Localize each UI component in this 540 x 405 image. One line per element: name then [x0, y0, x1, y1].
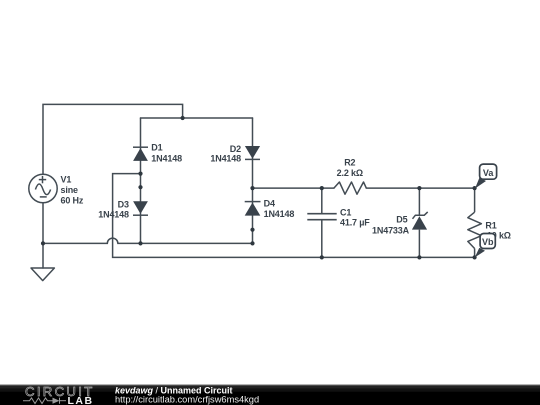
label C1 [340, 208, 370, 228]
wire D1/D3 column [140, 118, 142, 243]
svg-text:V1: V1 [61, 175, 72, 185]
junction D3 bottom rail [138, 241, 142, 245]
wire V1 top to node A [43, 104, 183, 174]
wire bottom rail with hop [43, 238, 253, 243]
junction R1 top node Va [473, 186, 477, 190]
svg-text:D2: D2 [230, 144, 241, 154]
label D1 [151, 142, 182, 163]
node Vb flag [475, 234, 496, 258]
junction C1 bottom [320, 255, 324, 259]
junction D2 output [250, 186, 254, 190]
wire D2/D4 column [252, 118, 254, 243]
svg-text:1N4148: 1N4148 [151, 154, 182, 164]
diode D4 [245, 202, 261, 216]
label V1 [61, 175, 84, 206]
ground [31, 268, 54, 281]
junction R1 bottom node Vb [473, 255, 477, 259]
svg-text:Vb: Vb [482, 237, 494, 247]
wire V1 bottom to ground [42, 203, 44, 268]
svg-text:1N4733A: 1N4733A [372, 225, 410, 235]
junction V1 ground [41, 241, 45, 245]
label R2 [337, 157, 363, 177]
junction D5 bottom [417, 255, 421, 259]
wire bypass branch left [113, 174, 475, 258]
diode D1 [133, 147, 148, 161]
junction node A [181, 116, 185, 120]
wire node A horizontal [141, 117, 253, 119]
svg-text:1N4148: 1N4148 [210, 154, 241, 164]
label D3 [98, 199, 129, 219]
wire output rail [253, 187, 334, 189]
svg-text:D5: D5 [396, 215, 407, 225]
svg-text:Va: Va [483, 168, 495, 178]
label D2 [210, 144, 241, 164]
label D4 [264, 198, 295, 219]
logo resistor-diode glyph [23, 398, 66, 404]
junction D4 anode terminal [250, 228, 254, 232]
source V1 [29, 174, 57, 202]
diode D3 [133, 201, 148, 215]
resistor R1 [468, 188, 482, 257]
node Va flag [475, 164, 497, 188]
diode D2 [245, 146, 260, 159]
svg-text:D4: D4 [264, 198, 275, 208]
svg-text:41.7 µF: 41.7 µF [340, 218, 370, 228]
svg-text:http://circuitlab.com/crfjsw6m: http://circuitlab.com/crfjsw6ms4kgd [115, 394, 259, 404]
junction D4 bottom rail [250, 241, 254, 245]
capacitor C1 [307, 188, 336, 257]
svg-text:D3: D3 [118, 199, 129, 209]
svg-text:C1: C1 [340, 208, 351, 218]
svg-text:sine: sine [61, 185, 79, 195]
svg-text:R1: R1 [485, 221, 496, 231]
svg-text:LAB: LAB [68, 395, 94, 405]
label R1 [485, 221, 510, 241]
svg-text:1N4148: 1N4148 [98, 209, 129, 219]
zener diode D5 [412, 188, 428, 257]
junction C1 top [320, 186, 324, 190]
junction D5 top [417, 186, 421, 190]
junction D3 cathode terminal [138, 185, 142, 189]
junction D1 anode [138, 172, 142, 176]
svg-text:60 Hz: 60 Hz [61, 196, 84, 206]
svg-text:2.2 kΩ: 2.2 kΩ [337, 168, 363, 178]
svg-text:1N4148: 1N4148 [264, 209, 295, 219]
svg-text:D1: D1 [151, 142, 162, 152]
footer bar [0, 385, 540, 405]
svg-text:R2: R2 [344, 157, 355, 167]
resistor R2 [334, 182, 366, 194]
label D5 [372, 215, 410, 236]
